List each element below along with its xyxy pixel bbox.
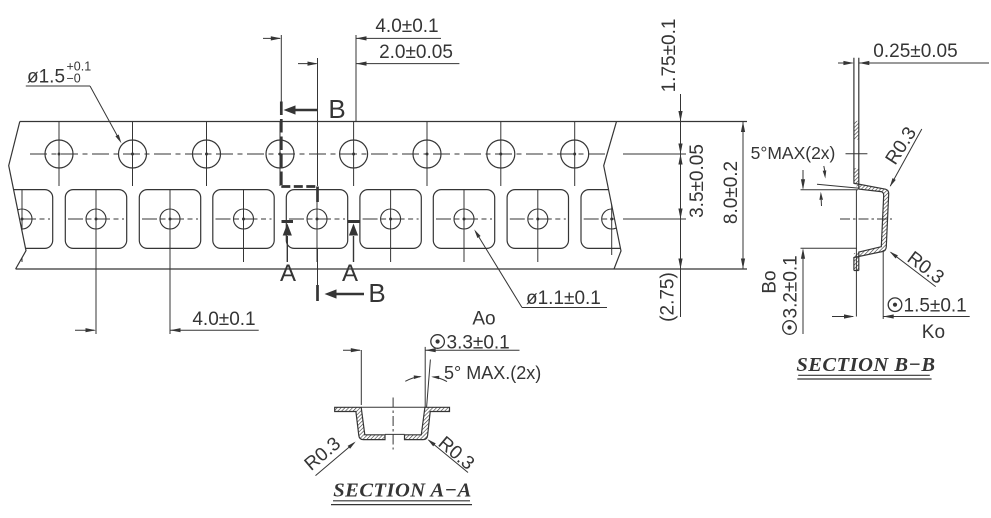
svg-text:2.0±0.05: 2.0±0.05 [379,42,453,63]
section A-A pocket cross-section right half [405,407,450,439]
node B-B pocket centerline [840,218,892,220]
sprocket hole S5 [340,122,368,186]
pocket P5 [360,190,421,262]
node B arrow top [293,109,318,112]
sprocket hole S6 [413,122,441,186]
svg-text:SECTION A−A: SECTION A−A [333,480,472,502]
pocket P0 (partial, left break) [0,190,53,262]
section B-B tape strip upper hatched segment [854,121,859,140]
svg-text:B: B [328,94,345,124]
sprocket hole S8 [561,122,589,186]
label SECTION B-B title [796,354,935,379]
wire B-B opening plane line [855,190,857,317]
section B-B pocket wall band [854,183,889,257]
pocket P6 [433,190,494,262]
svg-text:3.5±0.05: 3.5±0.05 [687,144,708,218]
sprocket hole S3 [193,122,221,186]
dimension Ao 3.3±0.1 [343,309,520,408]
section B-B lower tab hatched [854,253,859,271]
wire B-B bottom cap [854,270,859,272]
pocket P2 [139,190,200,334]
node A-A centerline [392,398,394,450]
svg-text:1.5±0.1: 1.5±0.1 [904,295,967,316]
label 5 deg MAX (2x) B-B [751,143,860,206]
label R0.3 A-A right [428,433,479,475]
pocket P8 (partial, right break) [581,190,642,255]
svg-text:4.0±0.1: 4.0±0.1 [375,16,438,37]
svg-text:5°MAX(2x): 5°MAX(2x) [751,143,836,163]
pocket P1 [65,190,126,334]
pocket P3 [213,190,274,262]
dimension Bo 3.2±0.1 [760,170,859,334]
wire tape top edge [20,121,747,123]
svg-text:Ko: Ko [922,322,945,343]
sprocket hole S7 [487,122,515,186]
wire B-B strip left outline [854,58,889,271]
dimension 8.0±0.2 [721,122,745,270]
wire extension line sprocket x=281 [280,35,282,104]
label R0.3 B-B top [882,123,922,186]
node A arrow right [353,236,355,262]
section A-A pocket cross-section left half [335,407,385,439]
wire sprocket centerline extension right [623,153,686,155]
dimension 2.0±0.05 top [298,42,459,66]
sprocket hole S1 [45,122,73,186]
sprocket hole S4 [266,122,294,186]
node B cutting plane lower segment [317,248,319,301]
svg-text:−0: −0 [67,72,81,86]
dimension 4.0±0.1 top [263,16,441,41]
dimension Ko 1.5±0.1 [832,250,970,343]
wire extension line sprocket x=356 [355,35,357,122]
node B cutting plane upper segment [280,102,283,187]
sprocket hole S2 [119,122,147,186]
node B-B sprocket hole tick [846,153,868,155]
svg-text:B: B [368,278,385,308]
wire sprocket-hole horizontal centerline [30,153,605,155]
svg-text:(2.75): (2.75) [658,272,679,322]
label pocket hole dia 1.1 [474,229,607,309]
wire extension line pocket x=318 [317,58,319,186]
pocket P7 [507,190,568,262]
node A cutting plane marks [282,220,294,223]
dimension 0.25±0.05 [838,41,989,65]
label 5 deg MAX (2x) A-A [405,360,541,408]
dimension 3.5±0.05 [678,209,682,220]
wire A-A hole far edge [385,433,405,435]
svg-text:A: A [342,260,358,287]
svg-text:1.75±0.1: 1.75±0.1 [659,19,680,93]
svg-text:Bo: Bo [760,270,781,293]
svg-text:3.3±0.1: 3.3±0.1 [447,333,510,354]
label R0.3 B-B bottom [890,248,948,289]
dimension 4.0±0.1 bottom [75,309,259,332]
svg-text:4.0±0.1: 4.0±0.1 [192,309,255,330]
wire left break line [9,122,26,270]
node A arrow left [286,236,288,262]
label SECTION A-A title [331,480,472,505]
wire right break line [604,122,621,270]
node B arrow bottom [334,293,364,296]
wire tape bottom edge [16,268,747,270]
svg-text:A: A [280,260,296,287]
dimension 1.75±0.1 [659,19,683,317]
dimension (2.75) [678,259,682,270]
section B-B tape strip second hatched segment [854,168,859,184]
label sprocket hole dia 1.5 [26,60,122,144]
pocket P4 [286,190,347,262]
node B cutting plane step [281,185,317,188]
wire A-A far-side opening edge [361,406,425,408]
svg-text:0.25±0.05: 0.25±0.05 [873,41,957,62]
svg-text:8.0±0.2: 8.0±0.2 [721,161,742,224]
svg-text:ø1.5: ø1.5 [27,67,65,88]
svg-text:Ao: Ao [472,309,495,330]
svg-text:SECTION B−B: SECTION B−B [796,354,935,376]
svg-text:5° MAX.(2x): 5° MAX.(2x) [444,363,541,383]
svg-text:ø1.1±0.1: ø1.1±0.1 [526,288,601,309]
label R0.3 A-A left [301,433,356,475]
svg-text:3.2±0.1: 3.2±0.1 [781,255,802,318]
wire B-B strip right outline [859,58,884,271]
wire pocket centerline extension right [623,218,686,220]
